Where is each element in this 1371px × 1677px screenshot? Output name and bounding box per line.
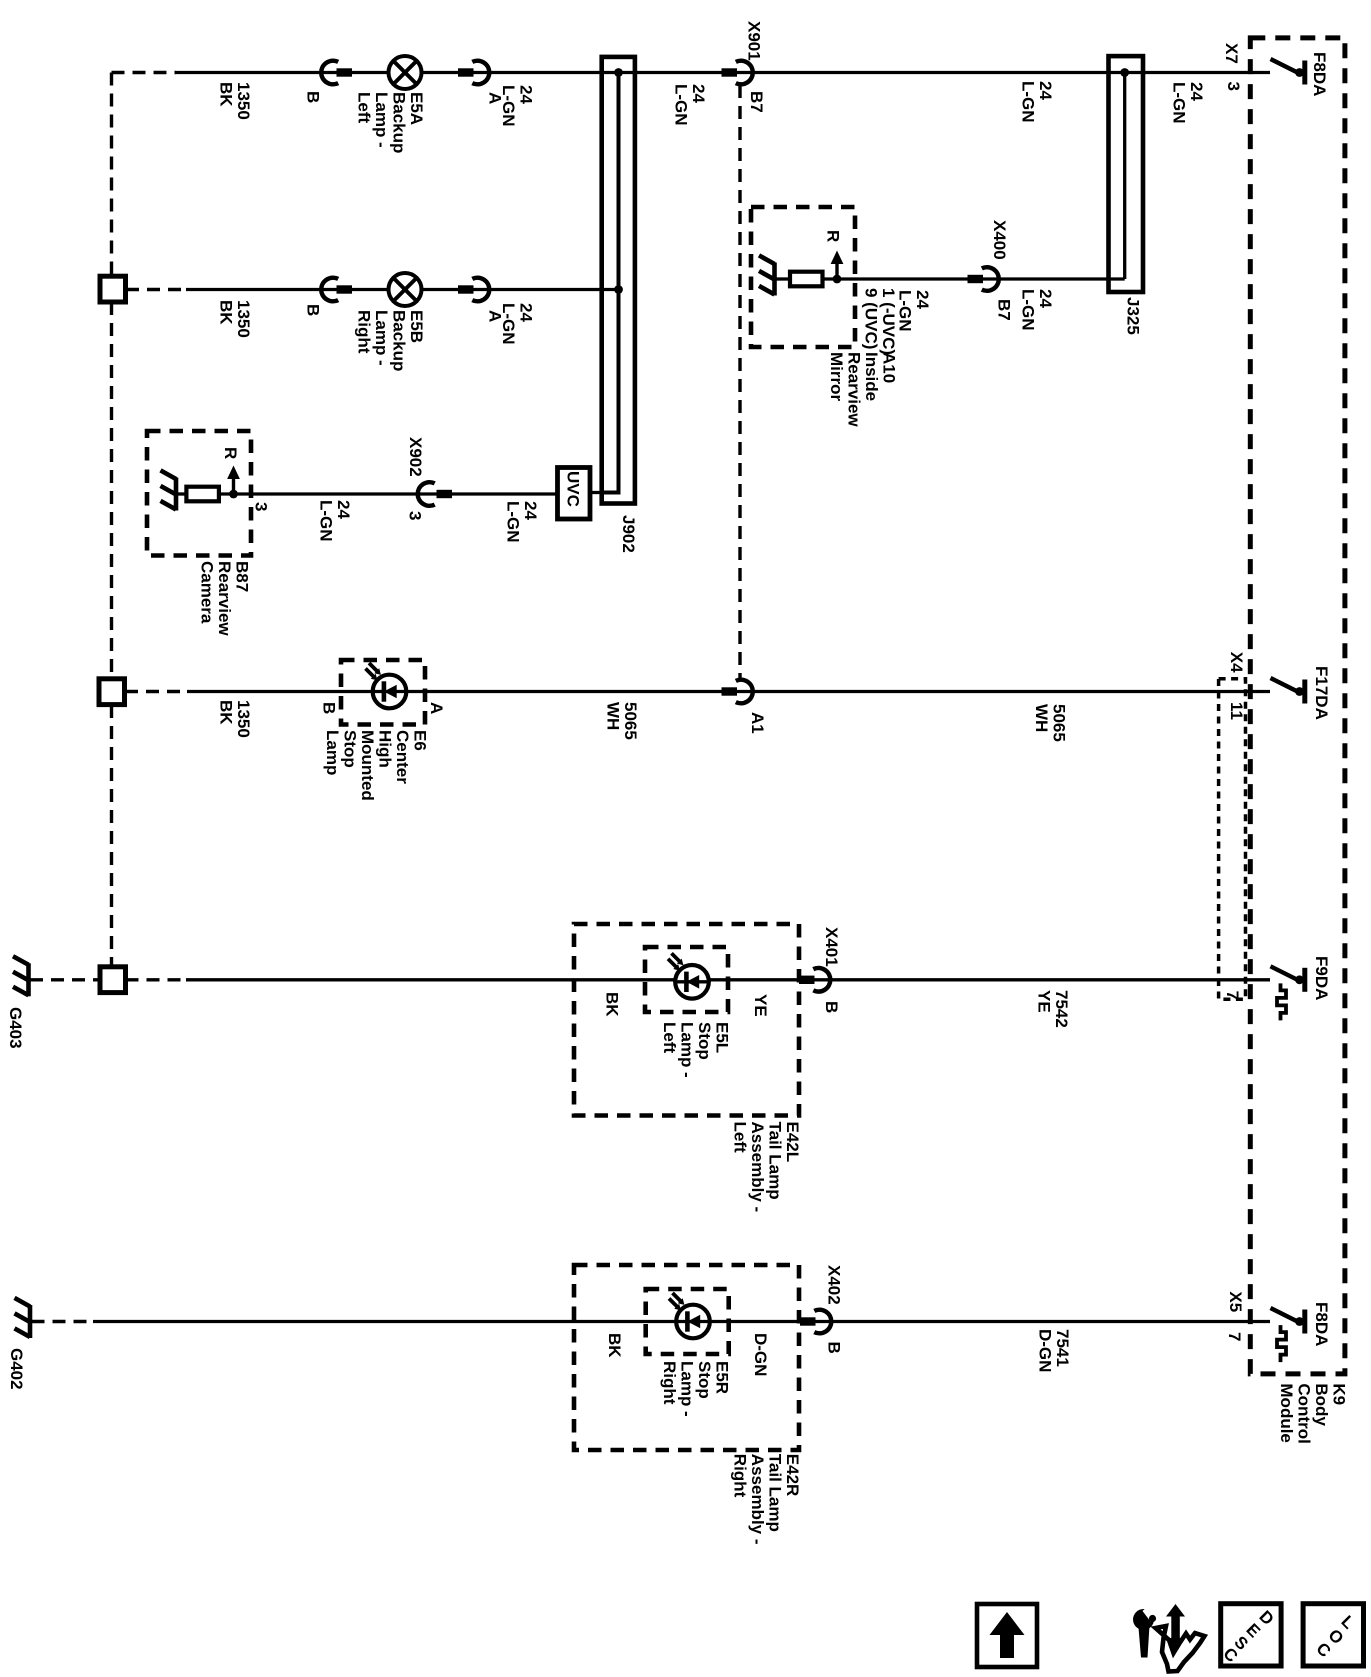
component K9 Body Control Module box xyxy=(1250,38,1345,1374)
component E6 box xyxy=(341,660,425,725)
svg-text:X902: X902 xyxy=(406,437,425,477)
arrow R in A10 xyxy=(835,260,838,280)
wire row6 xyxy=(93,1320,1270,1323)
svg-text:J902: J902 xyxy=(619,515,638,553)
svg-text:B: B xyxy=(304,304,323,316)
node junction row1 on J902 xyxy=(614,68,623,77)
svg-text:G402: G402 xyxy=(7,1348,26,1390)
connector X902 pin 3 xyxy=(418,482,435,506)
resistor in A10 xyxy=(775,277,791,280)
connector X402 pin B xyxy=(800,1317,816,1325)
svg-text:YE: YE xyxy=(751,994,770,1017)
svg-text:R: R xyxy=(824,230,843,242)
component E5L box xyxy=(645,947,728,1012)
svg-text:B7: B7 xyxy=(995,299,1014,321)
ground symbol in A10 xyxy=(772,263,777,296)
svg-text:3: 3 xyxy=(406,511,425,520)
svg-text:F8DA: F8DA xyxy=(1310,52,1329,96)
node splice S2 row4 xyxy=(99,679,125,705)
UVC converter box xyxy=(558,468,591,520)
connector X400 pin B7 xyxy=(968,275,984,283)
fuse F8DA bottom xyxy=(1271,1308,1297,1321)
svg-text:1 (-UVC)9 (UVC): 1 (-UVC)9 (UVC) xyxy=(862,288,899,355)
svg-text:B: B xyxy=(304,91,323,103)
connector X4 box xyxy=(1219,679,1246,1000)
ground G403 xyxy=(26,963,31,996)
lamp E5L LED xyxy=(675,965,709,999)
svg-text:F17DA: F17DA xyxy=(1312,666,1331,720)
svg-text:X901: X901 xyxy=(744,21,763,61)
wire row5 dashed stubs xyxy=(30,978,100,981)
splice pack J902 xyxy=(602,57,635,504)
svg-text:B: B xyxy=(319,702,338,714)
svg-text:R: R xyxy=(221,447,240,459)
wire row2 xyxy=(186,288,389,291)
wire dashed X901-A1 xyxy=(738,85,741,678)
svg-text:11: 11 xyxy=(1227,702,1246,720)
wire row1 dashed stub xyxy=(112,71,177,74)
wire J325 inner xyxy=(1123,73,1126,280)
svg-text:X7: X7 xyxy=(1222,43,1241,64)
svg-text:B: B xyxy=(822,1001,841,1013)
icon up-arrow button xyxy=(977,1604,1037,1667)
resistor in B87 xyxy=(176,492,186,495)
svg-text:A1: A1 xyxy=(748,712,767,734)
component E42L Tail Lamp Assembly box xyxy=(574,924,799,1116)
connector pin A of E5A xyxy=(458,68,474,76)
fuse F17DA xyxy=(1271,678,1297,691)
svg-text:X5: X5 xyxy=(1226,1291,1245,1312)
svg-text:BK: BK xyxy=(605,1333,624,1358)
fuse F9DA xyxy=(1271,966,1297,979)
svg-text:UVC: UVC xyxy=(563,471,582,507)
svg-text:F9DA: F9DA xyxy=(1312,956,1331,1000)
wire row6 dashed stub xyxy=(32,1320,94,1323)
node splice S1 row2 xyxy=(100,276,126,302)
connector pin B of E5A xyxy=(321,61,338,85)
component E5R box xyxy=(646,1289,729,1354)
lamp E5A Backup Lamp - Left xyxy=(389,56,422,89)
ground symbol in B87 xyxy=(174,478,179,511)
icon Desc button xyxy=(1221,1604,1281,1666)
ground G402 xyxy=(28,1305,33,1338)
wire row4 xyxy=(187,690,1270,693)
connector X401 pin B xyxy=(799,976,815,984)
connector pin B of E5B xyxy=(321,278,338,302)
component A10 Inside Rearview Mirror box xyxy=(751,207,855,347)
connector X901 pin B7 xyxy=(722,68,738,76)
fuse F8DA top xyxy=(1271,59,1297,72)
node junction row1 on J325 xyxy=(1120,68,1129,77)
svg-text:X400: X400 xyxy=(990,220,1009,260)
svg-text:7: 7 xyxy=(1225,1332,1244,1341)
wire UVC stub xyxy=(590,491,603,494)
icon wrench-arrows xyxy=(1156,1626,1205,1672)
svg-text:3: 3 xyxy=(1224,82,1243,91)
svg-text:B: B xyxy=(825,1342,844,1354)
connector pin A of E5B xyxy=(458,285,474,293)
svg-text:X4: X4 xyxy=(1227,652,1246,673)
svg-text:J325: J325 xyxy=(1123,297,1142,335)
component E42R Tail Lamp Assembly box xyxy=(574,1265,799,1450)
svg-text:F8DA: F8DA xyxy=(1312,1302,1331,1346)
splice pack J325 xyxy=(1109,56,1144,292)
wire row2 dashed stub xyxy=(126,288,186,291)
node junction A10 xyxy=(833,275,842,284)
svg-text:A: A xyxy=(427,702,446,714)
icon Loc button xyxy=(1303,1604,1363,1666)
lamp E6 LED xyxy=(373,675,407,709)
wire row1 xyxy=(176,71,389,74)
wire camera xyxy=(219,492,556,495)
svg-text:B7: B7 xyxy=(747,91,766,113)
svg-text:BK: BK xyxy=(602,992,621,1017)
svg-text:7541D-GN: 7541D-GN xyxy=(1035,1329,1072,1372)
component B87 Rearview Camera box xyxy=(147,431,251,556)
wire row4 dashed stub xyxy=(125,690,187,693)
lamp E5R LED xyxy=(676,1305,710,1339)
connector X901 pin A1 xyxy=(722,687,738,695)
wire row5 xyxy=(186,978,1270,981)
wire J902 inner xyxy=(602,73,619,493)
svg-text:X401: X401 xyxy=(822,927,841,967)
node splice S3 row5 xyxy=(100,967,126,993)
node junction B87 xyxy=(229,490,238,499)
node junction row2 on J902 xyxy=(614,285,623,294)
lamp E5B Backup Lamp - Right xyxy=(389,273,422,306)
svg-text:X402: X402 xyxy=(825,1265,844,1305)
svg-text:D-GN: D-GN xyxy=(751,1333,770,1376)
wire left dashed rail xyxy=(110,73,113,277)
svg-text:G403: G403 xyxy=(6,1007,25,1049)
arrow R in B87 xyxy=(232,475,235,495)
wire A10 to J325 xyxy=(823,277,1125,280)
svg-text:3: 3 xyxy=(252,502,271,511)
